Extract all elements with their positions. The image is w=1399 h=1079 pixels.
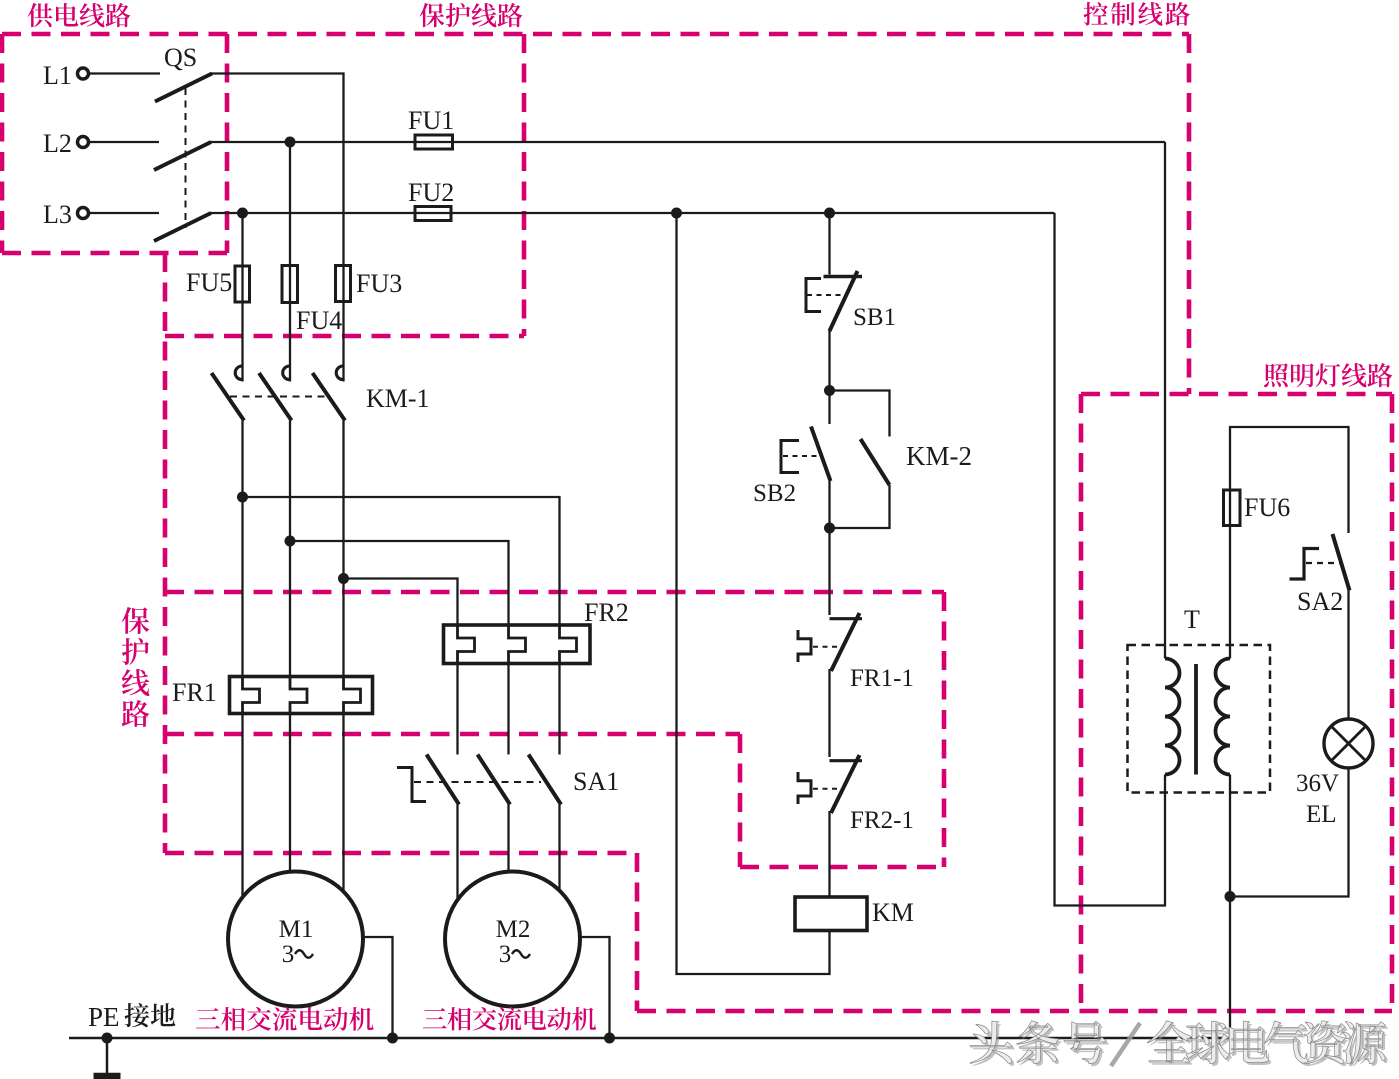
svg-text:FU4: FU4	[296, 306, 342, 335]
wire KM-1 pole2 to FR1	[289, 421, 291, 677]
wire M1 frame to PE	[363, 937, 393, 1038]
dashed SA1 region top	[165, 732, 740, 737]
wire L2 bus (through FU1) to lighting	[210, 141, 1165, 143]
wire lamp to secondary return	[1230, 768, 1349, 897]
wire SB2 bottom	[828, 481, 830, 528]
FR1 heater element1	[243, 677, 260, 714]
dashed FR contacts box bottom	[740, 865, 944, 870]
node control branch left on L3 bus	[671, 208, 682, 219]
wire KM-1 pole3 to FR1	[342, 421, 344, 677]
wire KM-2 branch bottom	[830, 485, 890, 528]
FR2 heater element3	[560, 625, 577, 664]
wire L2 terminal to QS	[89, 141, 159, 143]
node M2 on PE bus	[604, 1033, 615, 1044]
svg-text:SB2: SB2	[753, 480, 796, 507]
pushbutton SB1 contact bar	[824, 275, 863, 278]
region label 保护线路 (top)	[420, 3, 445, 27]
wire FR2 element3 to SA1	[558, 664, 560, 755]
svg-text:FR2: FR2	[584, 598, 629, 627]
wire branch B to FR2 element2	[290, 541, 509, 625]
node PE earth tap	[102, 1033, 113, 1044]
wire FR1 element2 to M1	[289, 714, 291, 874]
svg-text:M2: M2	[496, 916, 531, 943]
fuse FU1	[415, 135, 453, 149]
fuse FU2	[415, 207, 451, 221]
switch SA2 handle	[1290, 549, 1320, 580]
wire KM-1 pole1 to FR1	[241, 421, 243, 677]
switch SA1 pole1 blade	[427, 755, 460, 805]
thermal relay FR2 body	[444, 625, 591, 664]
dashed FR contacts box right	[942, 592, 947, 867]
dashed power-supply box right	[225, 34, 230, 253]
dashed control region right	[1187, 34, 1192, 394]
coil KM	[795, 897, 867, 931]
wire branch C to FR2 element1	[344, 579, 458, 626]
dashed lighting box top	[1081, 392, 1392, 397]
svg-text:SB1: SB1	[853, 304, 896, 331]
FR1 heater element3	[344, 677, 361, 714]
contactor KM-1 pole1	[235, 366, 242, 380]
dashed lighting box right	[1390, 394, 1395, 1011]
switch QS linkage	[185, 88, 187, 228]
pushbutton SB2 actuator	[781, 441, 799, 473]
pushbutton SB2 link	[783, 455, 818, 457]
earth electrode	[106, 1038, 109, 1073]
fuse FU6	[1224, 490, 1241, 526]
wire FR2 element1 to SA1	[456, 664, 458, 755]
transformer T primary winding	[1165, 659, 1180, 775]
dashed bottom boundary	[637, 1009, 1392, 1014]
region label 供电线路	[28, 3, 53, 27]
node secondary ground tap	[1225, 891, 1236, 902]
FR2 heater element1	[458, 625, 475, 664]
svg-text:L2: L2	[43, 129, 72, 158]
wire SB2 top stub	[828, 391, 830, 425]
contactor KM-1 linkage	[230, 396, 326, 398]
region label 保护线路 (vertical)	[122, 607, 150, 634]
switch QS pole2 blade	[154, 142, 211, 170]
dashed top boundary	[2, 32, 1189, 37]
wire to SB1	[828, 213, 830, 275]
svg-text:3: 3	[282, 941, 295, 968]
wire branch A to FR2 element3	[243, 497, 560, 625]
thermal contact FR2-1	[830, 759, 863, 762]
dashed power-supply box left	[0, 34, 4, 253]
watermark 头条号/全球电气资源	[973, 1023, 1389, 1066]
svg-text:36V: 36V	[1296, 770, 1339, 797]
contactor KM-1 pole2	[283, 366, 290, 380]
dashed protection fuse box bottom	[165, 334, 524, 339]
svg-text:FU2: FU2	[408, 178, 454, 207]
svg-text:FU6: FU6	[1244, 493, 1290, 522]
svg-text:FR2-1: FR2-1	[850, 807, 914, 834]
wire L3 terminal to QS	[89, 212, 159, 214]
dashed FR contacts box top	[165, 590, 944, 595]
contact KM-2 blade	[861, 439, 890, 485]
dashed motor region right	[635, 853, 640, 1011]
svg-text:PE: PE	[88, 1002, 120, 1032]
transformer T enclosure	[1128, 645, 1271, 793]
switch QS pole3 blade	[154, 213, 211, 241]
wire FR2-1 to KM coil	[828, 811, 830, 897]
pushbutton SB2 blade	[811, 427, 831, 482]
svg-text:T: T	[1184, 605, 1200, 634]
svg-text:L1: L1	[43, 61, 72, 90]
transformer T secondary winding	[1216, 659, 1231, 775]
fuse FU5	[235, 266, 250, 302]
svg-text:QS: QS	[164, 43, 197, 72]
switch SA1 handle	[397, 768, 426, 802]
dashed protection fuse box right	[522, 34, 527, 336]
FR1 heater element2	[290, 677, 307, 714]
svg-text:3: 3	[499, 941, 512, 968]
wire PE bus	[69, 1037, 1230, 1040]
node branch B to FR2	[285, 536, 296, 547]
pushbutton SB1 blade	[830, 271, 858, 331]
svg-text:SA2: SA2	[1297, 587, 1343, 616]
motor M2	[445, 872, 580, 1007]
label 三相交流电动机 (M1)	[196, 1008, 220, 1028]
svg-text:FR1-1: FR1-1	[850, 665, 914, 692]
wire L3 bus (through FU2) to lighting	[210, 212, 1055, 214]
wire secondary to FU6 and over to SA2	[1230, 427, 1349, 659]
wire SA2 to lamp	[1347, 591, 1349, 720]
node L2 / FU4 branch	[285, 137, 296, 148]
wire SA1 pole3 to M2	[558, 805, 560, 893]
node control branch SB1 on L3 bus	[824, 208, 835, 219]
wire FU5 column	[241, 213, 243, 365]
wire L1 terminal to QS	[89, 72, 160, 74]
wire SB2 to FR1-1	[828, 528, 830, 615]
motor M1	[228, 872, 363, 1007]
wire FU4 column	[289, 142, 291, 365]
contactor KM-1 pole3	[336, 366, 343, 380]
FR2 heater element2	[509, 625, 526, 664]
svg-text:FR1: FR1	[172, 678, 217, 707]
wire KM-2 branch top	[830, 391, 890, 437]
pushbutton SB1 actuator	[806, 279, 821, 312]
switch SA1 pole3 blade	[529, 755, 562, 805]
svg-text:FU1: FU1	[408, 106, 454, 135]
dashed power-supply box bottom	[2, 251, 227, 256]
svg-text:L3: L3	[43, 200, 72, 229]
svg-text:SA1: SA1	[573, 767, 619, 796]
svg-text:KM-2: KM-2	[906, 441, 972, 471]
dashed lighting box left	[1079, 394, 1084, 1011]
node SB2/KM-2 bottom	[824, 523, 835, 534]
wire FR1 element1 to M1	[241, 714, 243, 899]
wire M2 frame to PE	[580, 937, 610, 1038]
wire FR2 element2 to SA1	[507, 664, 509, 755]
dashed protection region left rail	[163, 253, 168, 853]
terminal L1	[78, 68, 89, 79]
wire L1 bus to FU3 column	[211, 74, 344, 366]
svg-text:KM: KM	[872, 898, 914, 927]
node SB2/KM-2 top	[824, 385, 835, 396]
thermal contact FR1-1	[830, 617, 863, 620]
wire secondary return to PE	[1229, 775, 1231, 1039]
svg-text:KM-1: KM-1	[366, 384, 430, 413]
dashed FR contacts box left	[738, 734, 743, 867]
terminal L3	[78, 208, 89, 219]
svg-text:M1: M1	[279, 916, 314, 943]
region label 照明灯线路	[1264, 363, 1288, 387]
wire SA1 pole1 to M2	[456, 805, 458, 902]
fuse FU3	[336, 266, 351, 302]
switch SA1 pole2 blade	[478, 755, 511, 805]
svg-text:FU5: FU5	[186, 268, 232, 297]
wire control left branch to KM coil bottom	[677, 213, 830, 974]
switch SA1 linkage	[414, 781, 541, 783]
wire primary return to L3 bus	[1055, 213, 1166, 906]
wire primary feed from L2 bus	[1164, 142, 1166, 659]
wire SB1 to SB2	[828, 331, 830, 391]
svg-text:FU3: FU3	[356, 269, 402, 298]
switch SA2 blade	[1333, 534, 1350, 591]
label 三相交流电动机 (M2)	[423, 1008, 447, 1028]
node M1 on PE bus	[387, 1033, 398, 1044]
fuse FU4	[282, 266, 298, 303]
node L3 / FU5 branch	[237, 208, 248, 219]
thermal relay FR1 body	[230, 677, 373, 714]
wire FR1 element3 to M1	[342, 714, 344, 894]
node branch A to FR2	[237, 492, 248, 503]
switch SA2 linkage	[1306, 562, 1340, 564]
lamp EL	[1324, 719, 1373, 768]
wire FR1-1 to FR2-1	[828, 669, 830, 757]
node branch C to FR2	[338, 573, 349, 584]
svg-text:EL: EL	[1306, 801, 1337, 828]
wire SA1 pole2 to M2	[507, 805, 509, 874]
dashed motor region bottom	[165, 851, 637, 856]
region label 控制线路	[1084, 2, 1108, 26]
switch QS pole1 blade	[155, 74, 212, 102]
pushbutton SB1 link	[807, 294, 841, 296]
transformer T core	[1194, 664, 1198, 775]
terminal L2	[78, 137, 89, 148]
